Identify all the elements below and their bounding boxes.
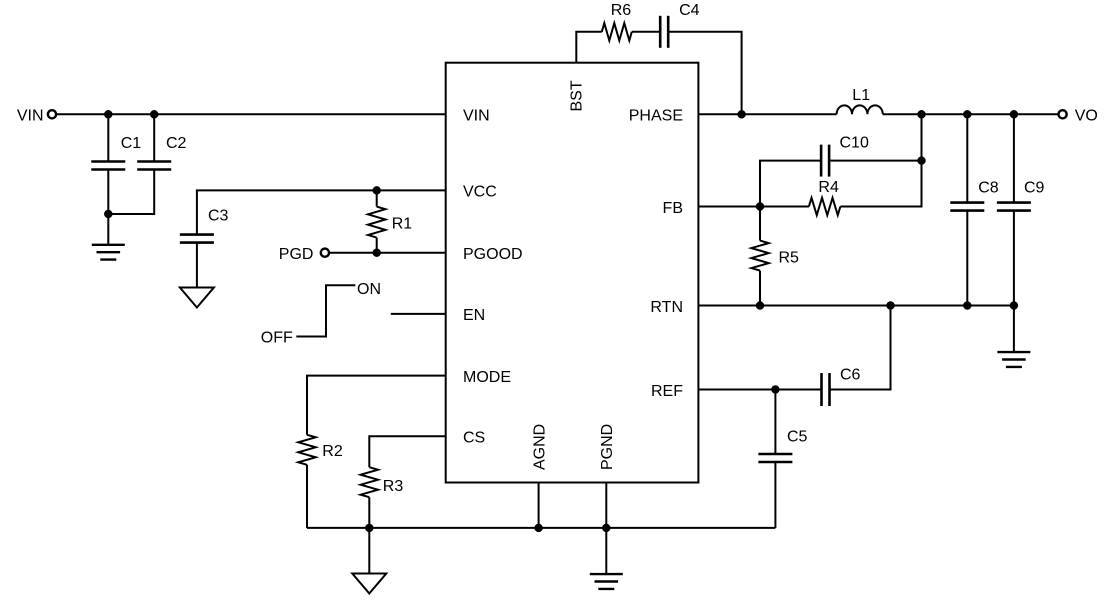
wire C5 bottom lead to rail (774, 462, 776, 528)
svg-text:CS: CS (463, 430, 485, 447)
wire C1 bottom lead (107, 170, 109, 215)
switch arm (ON position wire) (296, 285, 355, 336)
svg-text:C5: C5 (787, 429, 808, 446)
svg-text:FB: FB (663, 200, 683, 217)
junction C8 bottom (963, 302, 971, 310)
pin label BST (inside IC, rotated) (569, 80, 586, 111)
wire C5 top lead (774, 390, 776, 455)
pin label CS (inside IC) (463, 430, 485, 447)
label C3 (208, 207, 229, 224)
wire L1 to VO (883, 113, 1059, 115)
pin label PGOOD (inside IC) (463, 246, 523, 263)
svg-text:C4: C4 (679, 2, 700, 19)
svg-text:R3: R3 (383, 478, 404, 495)
wire C8 bottom lead (966, 211, 968, 306)
label VO (1075, 108, 1098, 125)
svg-text:AGND: AGND (531, 424, 548, 470)
wire C8 top lead (966, 114, 968, 202)
svg-text:VIN: VIN (17, 108, 44, 125)
resistor R5 (751, 241, 768, 271)
wire R5 bottom lead (759, 271, 761, 306)
svg-text:C8: C8 (978, 180, 999, 197)
wire C1 top lead (107, 114, 109, 161)
junction REF/C5 (771, 386, 779, 394)
wire C9 node to ground (1013, 306, 1015, 353)
wire C9 bottom lead (1013, 211, 1015, 306)
svg-text:PGD: PGD (279, 246, 314, 263)
pin label AGND (inside IC, rotated) (531, 424, 548, 470)
wire R3 bottom lead (368, 497, 370, 528)
junction R3 on ground rail (365, 524, 373, 532)
wire C9 top lead (1013, 114, 1015, 202)
junction L1/FB divider (918, 110, 926, 118)
wire C2 top lead (153, 114, 155, 161)
svg-text:R5: R5 (779, 250, 800, 267)
wire PGD to PGOOD pin (329, 252, 446, 254)
label C8 (978, 180, 999, 197)
wire ground rail (307, 527, 775, 529)
pin label PHASE (inside IC) (629, 108, 683, 125)
junction R5/RTN (756, 302, 764, 310)
capacitor C5 (758, 454, 792, 462)
wire C10 right leg (829, 160, 921, 162)
svg-text:C10: C10 (840, 134, 869, 151)
junction RTN/C6 branch (887, 302, 895, 310)
pin label MODE (inside IC) (463, 369, 511, 386)
label R5 (779, 250, 800, 267)
wire C6 to RTN node (830, 306, 891, 390)
label C2 (166, 135, 187, 152)
label C10 (840, 134, 869, 151)
wire R1 top lead (376, 190, 378, 206)
op-amp U1 (converter IC body) (446, 63, 699, 483)
svg-text:VO: VO (1075, 108, 1098, 125)
capacitor C2 (137, 162, 171, 170)
wire CS pin to R3 (369, 436, 445, 467)
pin label EN (inside IC) (463, 307, 485, 324)
wire AGND pin to rail (538, 483, 540, 528)
svg-text:C2: C2 (166, 135, 187, 152)
label R4 (818, 179, 839, 196)
pin label RTN (inside IC) (650, 299, 683, 316)
wire PGND to ground (605, 528, 607, 574)
junction C9 top (1010, 110, 1018, 118)
junction C10 right (918, 157, 926, 165)
svg-text:OFF: OFF (261, 329, 293, 346)
pin label VCC (inside IC) (463, 184, 497, 201)
capacitor C3 (180, 235, 214, 243)
svg-text:VIN: VIN (463, 108, 490, 125)
svg-text:L1: L1 (852, 87, 870, 104)
label C1 (121, 135, 142, 152)
wire MODE pin to R2 (307, 376, 446, 435)
wire R6 to C4 (632, 31, 660, 33)
label R6 (611, 2, 632, 19)
junction FB/R5/C10 (756, 203, 764, 211)
wire C2 bottom lead to C1 node (108, 170, 154, 215)
junction R1/PGOOD (373, 249, 381, 257)
capacitor C1 (91, 162, 125, 170)
svg-text:VCC: VCC (463, 184, 497, 201)
resistor R2 (298, 435, 315, 465)
capacitor C10 (821, 145, 829, 177)
svg-text:BST: BST (569, 80, 586, 111)
label C4 (679, 2, 700, 19)
junction PHASE/C4 (738, 110, 746, 118)
pin label VIN (inside IC) (463, 108, 490, 125)
junction PGND on rail (602, 524, 610, 532)
label VIN (input terminal) (17, 108, 44, 125)
label ON (357, 281, 381, 298)
terminal VO (1059, 110, 1067, 118)
resistor R4 (809, 198, 841, 215)
svg-text:C9: C9 (1024, 180, 1045, 197)
junction R1 top on VCC wire (373, 186, 381, 194)
svg-text:PHASE: PHASE (629, 108, 683, 125)
wire C1 node to ground (107, 214, 109, 245)
svg-text:ON: ON (357, 281, 381, 298)
wire R5 top lead (759, 207, 761, 241)
wire R3 to triangle ground (368, 528, 370, 574)
capacitor C9 (997, 203, 1031, 211)
svg-text:EN: EN (463, 307, 485, 324)
wire R4 to right vertical (840, 114, 921, 206)
ground (analog, triangle) (352, 574, 386, 594)
pin label FB (inside IC) (663, 200, 683, 217)
junction C1/C2 bottom (104, 210, 112, 218)
label R3 (383, 478, 404, 495)
wire R2 bottom lead to rail (306, 465, 308, 528)
svg-text:C1: C1 (121, 135, 142, 152)
ground (power) (590, 574, 623, 589)
ground (C3, triangle) (180, 288, 214, 308)
svg-text:PGOOD: PGOOD (463, 246, 523, 263)
junction AGND on rail (535, 524, 543, 532)
junction C2/VIN (150, 110, 158, 118)
junction C1/VIN (104, 110, 112, 118)
pin label REF (inside IC) (651, 383, 683, 400)
resistor R3 (361, 467, 378, 497)
label C5 (787, 429, 808, 446)
wire PHASE pin to L1 (698, 113, 836, 115)
wire C10 left leg (760, 161, 821, 207)
svg-text:RTN: RTN (650, 299, 683, 316)
wire VIN terminal to IC VIN pin (56, 113, 446, 115)
label OFF (261, 329, 293, 346)
wire R1 bottom lead (376, 238, 378, 253)
svg-text:R2: R2 (322, 443, 343, 460)
label R1 (392, 215, 413, 232)
svg-text:REF: REF (651, 383, 683, 400)
terminal VIN (48, 110, 56, 118)
ground (C1/C2) (92, 245, 125, 260)
wire REF pin to C6 (698, 389, 821, 391)
label C6 (840, 366, 861, 383)
label L1 (852, 87, 870, 104)
capacitor C8 (950, 203, 984, 211)
wire EN pin stub (391, 313, 446, 315)
junction C8 top (963, 110, 971, 118)
wire FB pin to R4 (698, 206, 809, 208)
wire BST pin up (576, 32, 602, 63)
capacitor C6 (822, 373, 830, 406)
capacitor C4 (660, 16, 668, 48)
svg-text:R1: R1 (392, 215, 413, 232)
svg-text:R6: R6 (611, 2, 632, 19)
inductor L1 (837, 105, 883, 114)
svg-text:C3: C3 (208, 207, 229, 224)
svg-text:R4: R4 (818, 179, 839, 196)
svg-text:C6: C6 (840, 366, 861, 383)
label C9 (1024, 180, 1045, 197)
wire C4 to PHASE node (668, 32, 741, 115)
resistor R6 (602, 23, 632, 40)
label R2 (322, 443, 343, 460)
terminal PGD (321, 249, 329, 257)
pin label PGND (inside IC, rotated) (599, 424, 616, 470)
resistor R1 (368, 207, 385, 238)
junction C9 bottom (1010, 302, 1018, 310)
svg-text:MODE: MODE (463, 369, 511, 386)
svg-text:PGND: PGND (599, 424, 616, 470)
wire PGND pin to rail (605, 483, 607, 528)
wire C3 to VCC pin (197, 190, 446, 234)
wire RTN pin to C9 (698, 305, 1014, 307)
label PGD (279, 246, 314, 263)
wire C3 bottom lead (196, 243, 198, 288)
ground (output) (997, 352, 1030, 367)
